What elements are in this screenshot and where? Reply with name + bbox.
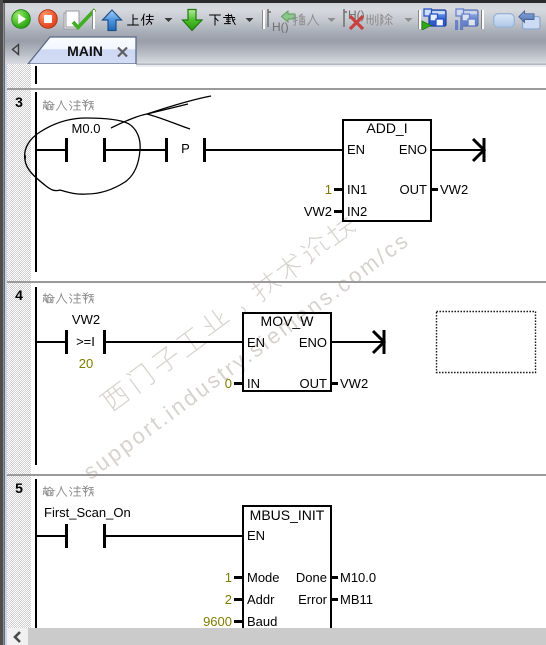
svg-text:H(): H() xyxy=(348,8,365,22)
svg-text:H(): H() xyxy=(272,20,289,33)
